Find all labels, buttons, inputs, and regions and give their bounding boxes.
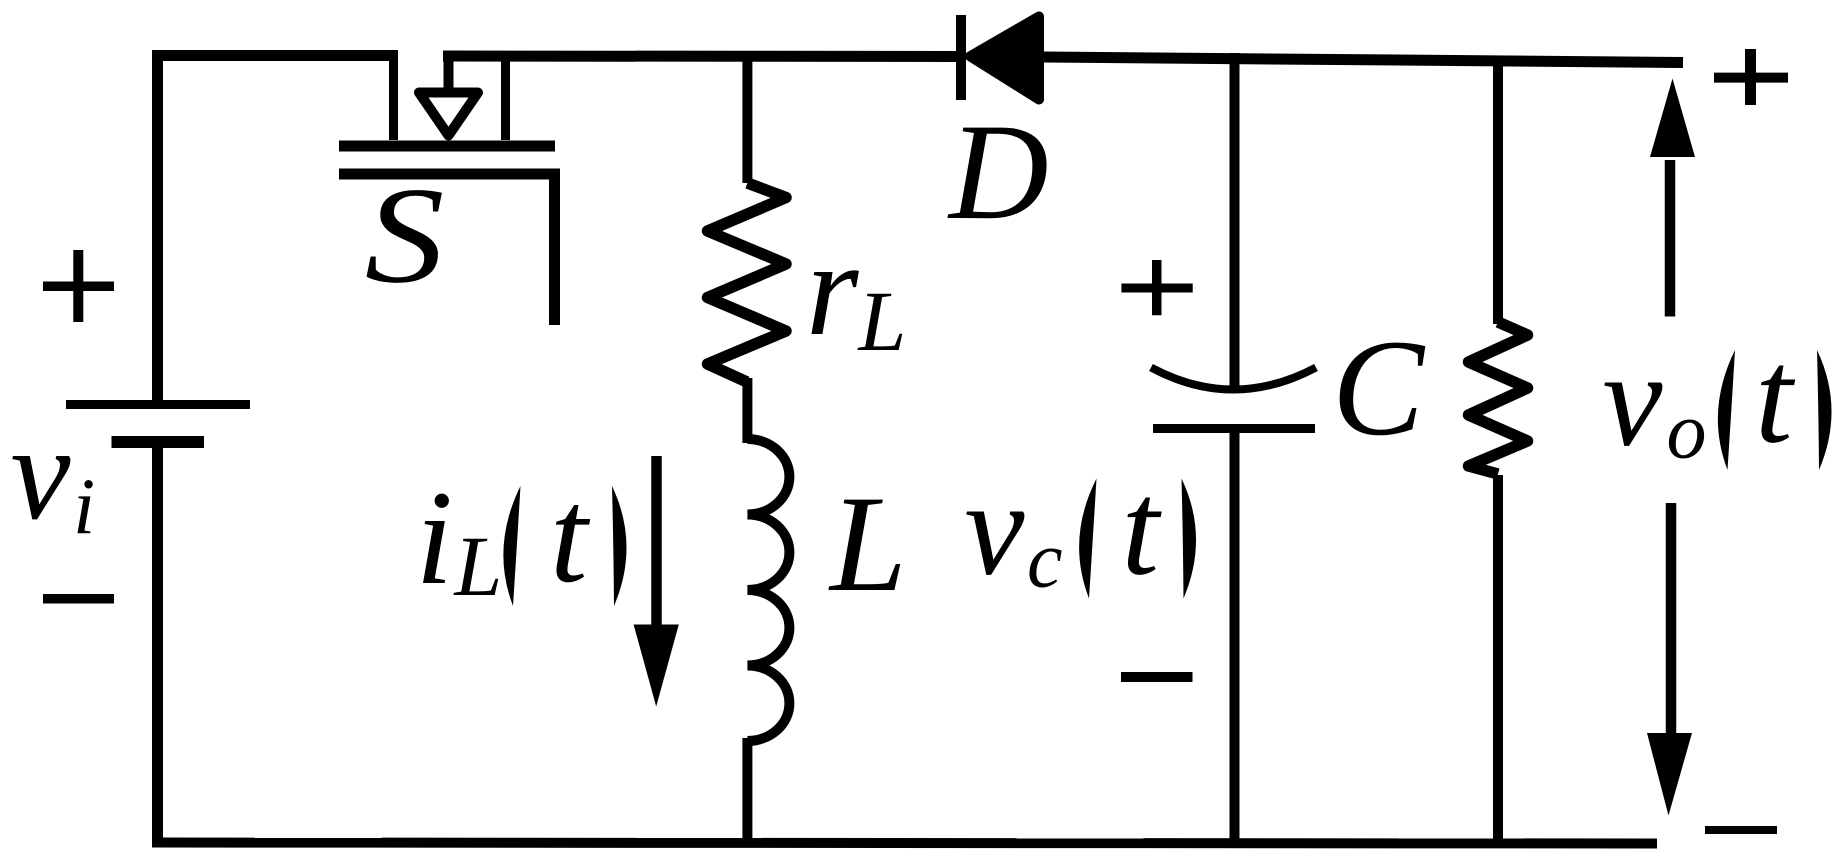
transistor S drain lead	[389, 51, 398, 140]
wire left rail lower	[152, 442, 163, 847]
arrow vo down head	[1647, 733, 1692, 816]
plus vo	[1714, 49, 1788, 105]
arrow vo down stem	[1666, 503, 1677, 745]
wire capacitor branch bottom	[1230, 428, 1240, 847]
svg-text:L: L	[453, 518, 503, 614]
svg-text:c: c	[1027, 517, 1063, 605]
svg-text:r: r	[806, 215, 859, 364]
svg-text:C: C	[1332, 311, 1426, 464]
wire load branch top	[1493, 56, 1503, 324]
minus vo	[1705, 826, 1777, 834]
diode D triangle	[970, 17, 1039, 100]
wire left rail upper	[152, 51, 163, 404]
battery vi long plate	[66, 400, 250, 409]
svg-text:i: i	[416, 464, 454, 613]
plus vi	[43, 250, 114, 322]
svg-text:v: v	[965, 455, 1025, 604]
svg-text:t: t	[550, 462, 591, 611]
arrow iL head	[634, 625, 679, 707]
wire top middle segment	[443, 51, 956, 63]
wire rL to L	[742, 378, 752, 443]
paren ) of vo(t)	[1817, 350, 1832, 470]
transistor S arrow stem	[444, 51, 454, 90]
wire L to bottom	[742, 738, 752, 847]
svg-text:S: S	[365, 159, 445, 312]
svg-text:L: L	[857, 273, 907, 369]
svg-text:o: o	[1667, 388, 1707, 476]
wire inductor branch top	[742, 51, 752, 183]
wire top left segment	[152, 50, 398, 61]
svg-text:v: v	[1603, 326, 1663, 475]
paren ( of iL(t)	[503, 486, 520, 606]
transistor S source lead	[501, 51, 510, 140]
wire load branch bottom	[1493, 475, 1503, 847]
svg-text:v: v	[11, 399, 71, 548]
arrow vo up head	[1650, 79, 1695, 158]
plus vc	[1121, 260, 1192, 315]
capacitor C curved plate	[1151, 368, 1316, 390]
resistor rL zigzag	[708, 183, 787, 382]
paren ) of iL(t)	[612, 486, 627, 606]
svg-text:D: D	[947, 95, 1049, 248]
inductor L coil	[747, 439, 789, 741]
transistor S channel bar	[339, 141, 555, 152]
diode D cathode bar	[956, 15, 966, 100]
resistor load zigzag	[1469, 322, 1528, 474]
paren ( of vc(t)	[1079, 479, 1096, 599]
arrow vo up stem	[1665, 160, 1676, 317]
transistor S gate bar and lead	[339, 174, 555, 325]
paren ) of vc(t)	[1182, 479, 1197, 599]
arrow iL stem	[651, 456, 662, 640]
wire bottom rail	[152, 843, 1657, 844]
svg-text:L: L	[828, 467, 907, 620]
wire capacitor branch top	[1230, 53, 1240, 388]
wire top right segment	[1044, 57, 1683, 63]
capacitor C straight plate	[1153, 424, 1315, 433]
battery vi short plate	[112, 436, 205, 448]
svg-text:i: i	[73, 464, 95, 552]
minus vi	[43, 594, 114, 604]
transistor S arrow head	[419, 93, 478, 136]
svg-text:t: t	[1755, 323, 1796, 472]
minus vc	[1121, 672, 1193, 682]
paren ( of vo(t)	[1718, 350, 1735, 470]
svg-text:t: t	[1122, 455, 1163, 604]
